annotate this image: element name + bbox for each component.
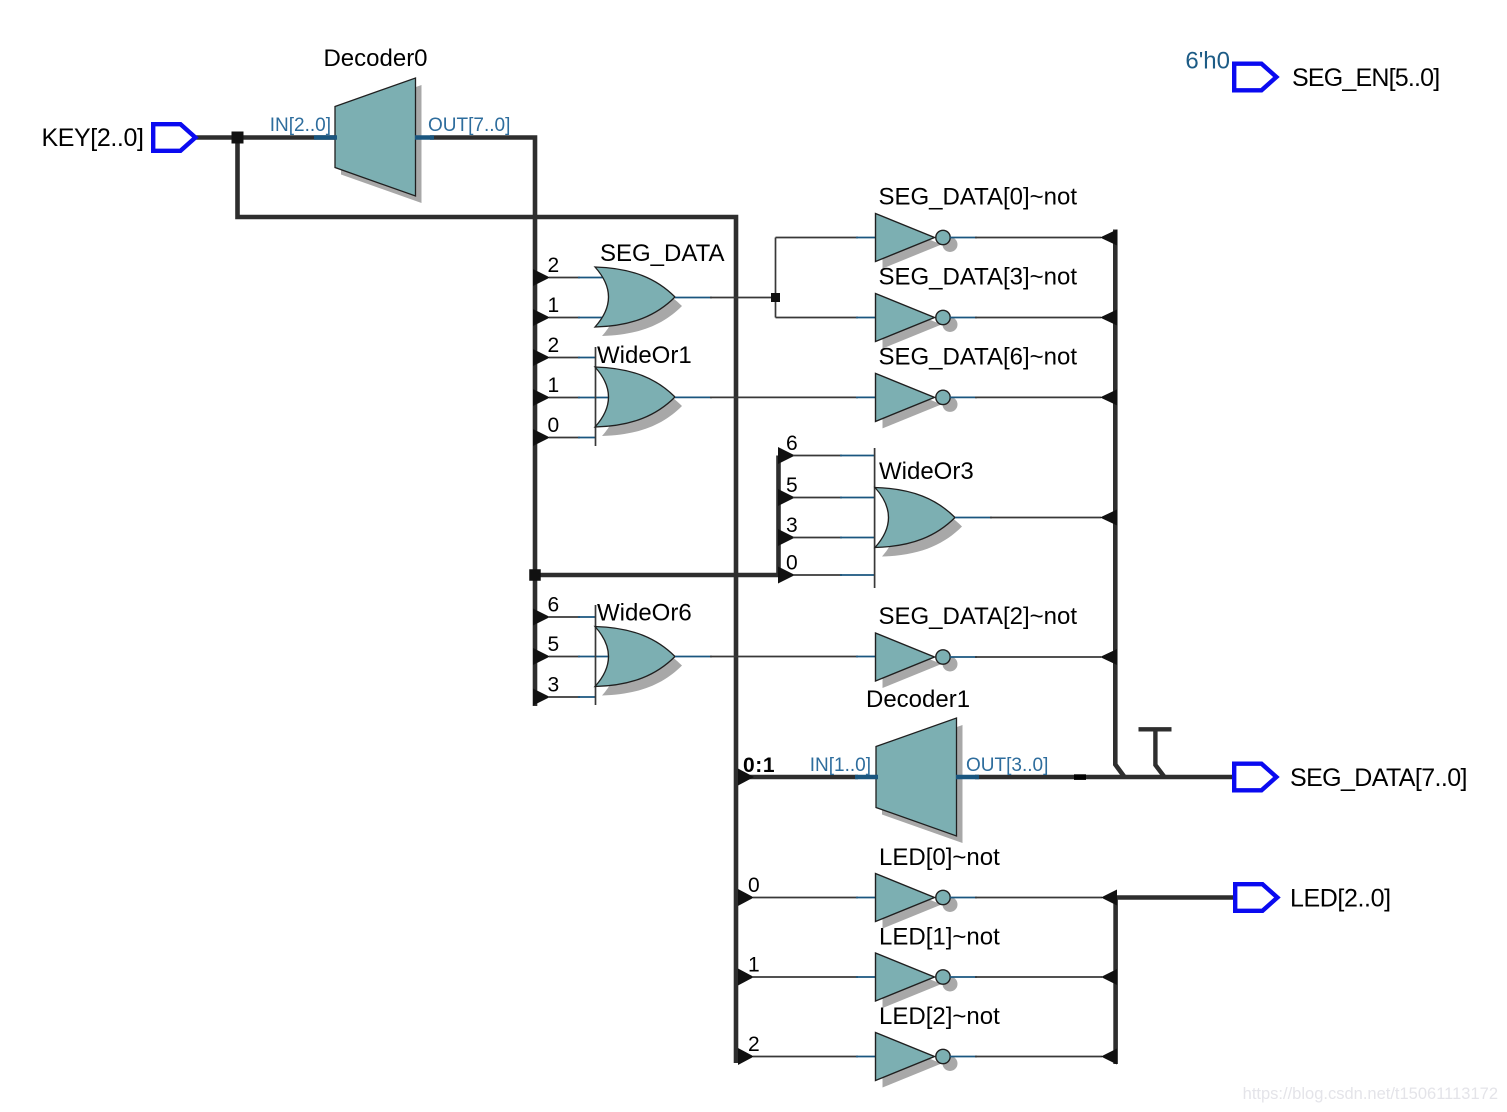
off-page connector T symbol on SEG_DATA[7..0] net — [1139, 729, 1172, 777]
svg-text:0: 0 — [786, 552, 798, 575]
wire: KEY bus down then right then down the page (to Decoder1/LED taps) — [238, 138, 737, 1064]
svg-text:SEG_EN[5..0]: SEG_EN[5..0] — [1292, 64, 1439, 92]
or-gate SEG_DATA — [595, 267, 682, 336]
or-gate WideOr1 — [595, 367, 682, 436]
svg-text:SEG_DATA[6]~not: SEG_DATA[6]~not — [879, 343, 1078, 370]
wire: LED[1]~not output to LED bus — [950, 976, 977, 978]
svg-text:LED[1]~not: LED[1]~not — [879, 924, 1000, 951]
decoder U Decoder0 — [335, 78, 422, 203]
tap arrow + wire: OUT bit 2 to WideOr1 input — [533, 349, 550, 366]
bus-merge arrow for LED[2]~not — [1101, 1049, 1117, 1065]
wire: SEG_DATA[0]~not output to SEG_DATA bus — [950, 237, 977, 239]
svg-text:OUT[7..0]: OUT[7..0] — [428, 115, 510, 136]
svg-text:LED[2]~not: LED[2]~not — [879, 1003, 1000, 1030]
svg-text:2: 2 — [548, 254, 560, 277]
tap arrow + wire: KEY bit 1 to LED[1]~not input — [738, 969, 754, 986]
bus-merge arrow for SEG_DATA[6]~not — [1100, 389, 1117, 405]
or-gate WideOr3 — [875, 488, 962, 557]
tap arrow + wire: OUT bit 6 to WideOr6 input — [533, 609, 550, 626]
output port SEG_EN[5..0] — [1234, 64, 1276, 91]
tap arrow + wire: OUT bit 0 to WideOr1 input — [533, 429, 550, 446]
tap arrow 0:1 from KEY bus to Decoder1 — [738, 769, 754, 786]
svg-text:0:1: 0:1 — [743, 754, 775, 777]
tap arrow + wire: OUT bit 2 to SEG_DATA or-gate input — [533, 269, 550, 286]
svg-text:SEG_DATA[2]~not: SEG_DATA[2]~not — [879, 603, 1078, 630]
wire: SEG_DATA[3]~not output to SEG_DATA bus — [950, 317, 977, 319]
svg-text:IN[1..0]: IN[1..0] — [810, 755, 871, 776]
not-gate SEG_DATA[6]~not — [876, 373, 958, 428]
junction on KEY net — [232, 132, 244, 144]
bus-merge arrow for SEG_DATA[3]~not — [1100, 310, 1117, 326]
pin stub OUT of Decoder1 — [956, 775, 979, 780]
vertical pin connector line of WideOr6 — [595, 605, 597, 705]
svg-text:0: 0 — [548, 414, 560, 437]
junction on OUT bus at WideOr3 branch — [529, 569, 541, 581]
svg-text:Decoder0: Decoder0 — [323, 45, 427, 72]
or-gate WideOr6 — [595, 627, 682, 696]
tap arrow + wire: KEY bit 2 to LED[2]~not input — [738, 1048, 754, 1065]
svg-text:5: 5 — [786, 474, 798, 497]
wire: LED[0]~not output to LED bus — [950, 897, 977, 899]
pin stub IN of Decoder1 — [855, 775, 878, 780]
decoder U Decoder1 — [876, 718, 963, 843]
wire: Decoder1 IN[1..0] tap from KEY bus — [738, 775, 858, 780]
svg-text:3: 3 — [786, 514, 798, 537]
wire: branch up to SEG_DATA[0]~not input — [776, 237, 859, 239]
tap arrow + wire: OUT bit 1 to SEG_DATA or-gate input — [533, 309, 550, 326]
not-gate LED[0]~not — [876, 874, 958, 929]
svg-text:2: 2 — [548, 334, 560, 357]
wire: LED bus (right vertical) and wire to LED[2..0] port — [1116, 898, 1234, 1065]
svg-text:LED[0]~not: LED[0]~not — [879, 844, 1000, 871]
svg-text:1: 1 — [548, 374, 560, 397]
vertical pin connector line of WideOr1 — [595, 347, 597, 446]
not-gate SEG_DATA[2]~not — [876, 633, 958, 688]
bus-merge arrow for LED[1]~not — [1101, 969, 1117, 985]
wire: Decoder0 OUT[7..0] bus right then down (left tap bus) — [430, 138, 535, 707]
wire: LED[2]~not output to LED bus — [950, 1056, 977, 1058]
wire: WideOr3 output to SEG_DATA bus — [955, 517, 992, 519]
wire: KEY[2..0] from input port to Decoder0 IN — [196, 135, 338, 140]
svg-text:SEG_DATA[0]~not: SEG_DATA[0]~not — [879, 184, 1078, 211]
svg-text:WideOr3: WideOr3 — [879, 458, 974, 485]
tap arrow + wire: OUT bit 6 to WideOr3 input — [778, 447, 795, 464]
wire: SEG_DATA gate output with branch junction — [675, 297, 712, 299]
wire: WideOr6 output to SEG_DATA[2]~not input — [675, 656, 712, 658]
tap arrow + wire: KEY bit 0 to LED[0]~not input — [738, 889, 754, 906]
svg-text:OUT[3..0]: OUT[3..0] — [966, 755, 1048, 776]
svg-text:1: 1 — [548, 294, 560, 317]
svg-text:LED[2..0]: LED[2..0] — [1290, 885, 1391, 913]
wire: branch down to SEG_DATA[3]~not input — [776, 317, 859, 319]
wire: SEG_DATA[6]~not output to SEG_DATA bus — [950, 396, 977, 398]
not-gate LED[2]~not — [876, 1033, 958, 1088]
tap arrow + wire: OUT bit 3 to WideOr3 input — [778, 529, 795, 546]
tap arrow + wire: OUT bit 1 to WideOr1 input — [533, 389, 550, 406]
svg-text:SEG_DATA[3]~not: SEG_DATA[3]~not — [879, 264, 1078, 291]
wire: Decoder1 OUT[3..0] to SEG_DATA[7..0] port — [975, 775, 1234, 780]
input port KEY[2..0] — [153, 124, 195, 151]
wire: OUT bus branch to WideOr3 tap bus — [535, 456, 779, 576]
svg-text:WideOr6: WideOr6 — [597, 600, 692, 627]
svg-text:IN[2..0]: IN[2..0] — [270, 115, 331, 136]
not-gate SEG_DATA[0]~not — [876, 214, 958, 269]
wire: SEG_DATA[2]~not output to SEG_DATA bus — [950, 656, 977, 658]
bus-merge arrow for LED[0]~not — [1101, 890, 1117, 906]
svg-text:2: 2 — [748, 1033, 760, 1056]
svg-text:6: 6 — [548, 594, 560, 617]
output port LED[2..0] — [1235, 884, 1277, 911]
pin stub OUT of Decoder0 — [415, 135, 434, 140]
svg-text:6: 6 — [786, 432, 798, 455]
bus-merge arrow for WideOr3 output — [1100, 510, 1117, 526]
not-gate LED[1]~not — [876, 953, 958, 1008]
svg-text:KEY[2..0]: KEY[2..0] — [41, 124, 143, 152]
not-gate SEG_DATA[3]~not — [876, 294, 958, 349]
output port SEG_DATA[7..0] — [1234, 764, 1276, 791]
svg-text:SEG_DATA: SEG_DATA — [600, 240, 724, 267]
svg-text:1: 1 — [748, 954, 760, 977]
tap arrow + wire: OUT bit 0 to WideOr3 input — [778, 567, 795, 584]
tap arrow + wire: OUT bit 5 to WideOr6 input — [533, 648, 550, 665]
vertical pin connector line of WideOr3 — [874, 448, 876, 588]
bus-merge arrow for SEG_DATA[0]~not — [1100, 230, 1117, 246]
wire: black segment marker on SEG_DATA[7..0] wire — [1074, 774, 1086, 780]
svg-text:6'h0: 6'h0 — [1185, 48, 1230, 75]
svg-text:3: 3 — [548, 674, 560, 697]
tap arrow + wire: OUT bit 5 to WideOr3 input — [778, 489, 795, 506]
pin stub IN of Decoder0 — [314, 135, 337, 140]
svg-text:Decoder1: Decoder1 — [866, 686, 970, 713]
svg-text:SEG_DATA[7..0]: SEG_DATA[7..0] — [1290, 764, 1467, 792]
wire: WideOr1 output to SEG_DATA[6]~not input — [675, 396, 712, 398]
svg-text:https://blog.csdn.net/t1506111: https://blog.csdn.net/t15061113172 — [1243, 1085, 1498, 1103]
svg-text:0: 0 — [748, 874, 760, 897]
svg-text:WideOr1: WideOr1 — [597, 342, 692, 369]
bus-merge arrow for SEG_DATA[2]~not — [1100, 649, 1117, 665]
svg-text:5: 5 — [548, 633, 560, 656]
tap arrow + wire: OUT bit 3 to WideOr6 input — [533, 689, 550, 706]
wire: SEG_DATA not-outputs bus (right vertical) with bend into output wire — [1115, 230, 1124, 778]
